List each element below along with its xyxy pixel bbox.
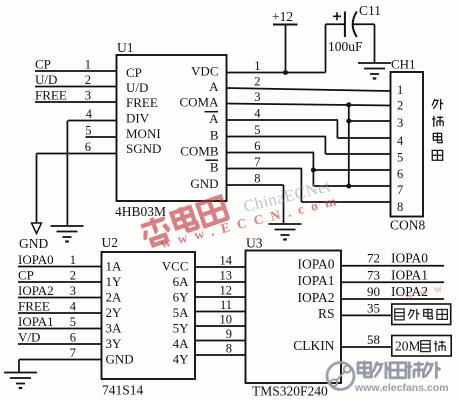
- svg-text:+12: +12: [272, 9, 293, 24]
- svg-text:FREE: FREE: [126, 95, 158, 110]
- svg-text:IOPA0: IOPA0: [391, 251, 428, 266]
- svg-text:U/D: U/D: [35, 72, 57, 87]
- reset circuit block (Chinese): [392, 304, 451, 325]
- svg-text:5: 5: [254, 123, 260, 137]
- wire U2 GND pin 7 to ground: [19, 346, 102, 373]
- svg-text:CLKIN: CLKIN: [293, 338, 334, 353]
- svg-text:4A: 4A: [173, 336, 190, 351]
- wire U1 GND pin8 to ground: [227, 172, 284, 225]
- svg-text:B: B: [210, 160, 219, 175]
- U1 pin name SGND: [126, 141, 161, 156]
- wire FREE input, U1 pin 3: [35, 88, 117, 103]
- U1 pin name DIV: [126, 111, 150, 126]
- U2 pin name 6Y: [173, 290, 190, 305]
- U2 pin name 4Y: [173, 352, 190, 367]
- svg-text:11: 11: [220, 298, 232, 312]
- CON8 pin 4: [397, 134, 404, 148]
- CON8 pin 5: [397, 151, 403, 165]
- svg-text:2: 2: [85, 73, 91, 87]
- svg-text:6Y: 6Y: [173, 290, 190, 305]
- junction COMA branch top: [346, 102, 351, 107]
- U1 pin name B-bar: [206, 160, 219, 175]
- svg-text:35: 35: [367, 300, 380, 315]
- svg-text:A: A: [209, 111, 219, 126]
- wire COMA: U1 pin3 to CON8 pin2: [227, 90, 391, 106]
- svg-text:3: 3: [397, 116, 403, 130]
- svg-text:7: 7: [397, 183, 403, 197]
- U1 pin name GND: [190, 176, 218, 191]
- svg-text:8: 8: [397, 200, 403, 214]
- svg-text:12: 12: [220, 284, 233, 298]
- svg-text:13: 13: [220, 269, 233, 283]
- svg-text:1: 1: [70, 253, 76, 267]
- U1 pin name A-bar: [205, 111, 220, 126]
- svg-text:5Y: 5Y: [173, 321, 190, 336]
- U2 pin name GND: [106, 352, 134, 367]
- wire IOPA2 output, U3 pin 90: [341, 284, 444, 299]
- wire RS, U3 pin 35, to reset circuit: [341, 300, 392, 315]
- svg-text:6: 6: [85, 140, 91, 154]
- wire IOPA1 output, U3 pin 73: [341, 267, 444, 282]
- U1 pin name VDC: [191, 64, 218, 79]
- IC U3 TMS320F240 body: [246, 236, 342, 399]
- svg-text:CON8: CON8: [390, 218, 426, 233]
- wire U2 pin 8 to U3: [195, 342, 246, 356]
- svg-text:5: 5: [85, 124, 91, 138]
- svg-text:CP: CP: [126, 65, 142, 80]
- svg-text:IOPA0: IOPA0: [18, 252, 54, 267]
- U1 pin name FREE: [126, 95, 158, 110]
- wire IOPA0 input, U2 pin 1: [18, 252, 102, 267]
- svg-text:6: 6: [397, 167, 403, 181]
- svg-text:CP: CP: [18, 268, 34, 283]
- svg-text:VDC: VDC: [191, 64, 218, 79]
- U1 pin name A: [209, 79, 219, 94]
- wire U2 pin 9 to U3: [195, 327, 246, 341]
- svg-text:5: 5: [397, 151, 403, 165]
- IC U1 4HB03M body: [115, 40, 227, 219]
- wire phase B: U1 pin5 to CON8 pin5: [227, 123, 391, 154]
- svg-text:741S14: 741S14: [102, 383, 144, 398]
- svg-text:GND: GND: [106, 352, 134, 367]
- ground at U1 DIV pin: [51, 226, 84, 242]
- svg-text:3Y: 3Y: [106, 336, 123, 351]
- junction COMA branch to CON8 pin3: [346, 119, 351, 124]
- svg-text:1Y: 1Y: [106, 274, 123, 289]
- svg-text:www.elecfans.com: www.elecfans.com: [354, 382, 449, 394]
- svg-text:SGND: SGND: [126, 141, 161, 156]
- svg-text:2A: 2A: [106, 290, 123, 305]
- svg-text:1: 1: [254, 59, 260, 73]
- svg-text:100uF: 100uF: [328, 39, 363, 54]
- wire V/D input, U2 pin 6: [18, 330, 102, 345]
- svg-text:2: 2: [397, 99, 403, 113]
- svg-text:FREE: FREE: [18, 299, 50, 314]
- wire DIV, U1 pin 4, to ground: [67, 107, 116, 227]
- svg-text:IOPA0: IOPA0: [297, 257, 334, 272]
- svg-text:U1: U1: [117, 40, 134, 55]
- svg-text:GND: GND: [19, 236, 48, 251]
- CON8 pin 1: [397, 83, 403, 97]
- U2 pin name 6A: [173, 274, 190, 289]
- CON8 pin 7: [397, 183, 403, 197]
- svg-text:20M: 20M: [395, 339, 421, 354]
- svg-text:U3: U3: [246, 236, 263, 251]
- svg-text:4Y: 4Y: [173, 352, 190, 367]
- svg-text:GND: GND: [190, 176, 218, 191]
- U1 pin name COMB: [180, 144, 219, 159]
- svg-text:VCC: VCC: [162, 259, 189, 274]
- U2 pin name 5A: [173, 305, 190, 320]
- svg-text:8: 8: [226, 342, 232, 356]
- ground at U1 GND pin: [269, 224, 302, 240]
- U3 pin name RS: [318, 306, 335, 321]
- svg-text:4: 4: [70, 300, 77, 314]
- junction +12/VDC node: [283, 70, 288, 75]
- U1 pin name MONI: [126, 126, 161, 141]
- svg-text:6: 6: [254, 139, 260, 153]
- svg-text:5A: 5A: [173, 305, 190, 320]
- svg-text:4: 4: [254, 107, 261, 121]
- +12 power terminal: [272, 9, 298, 73]
- svg-text:MONI: MONI: [126, 126, 161, 141]
- svg-text:IOPA2: IOPA2: [297, 290, 334, 305]
- svg-text:10: 10: [220, 313, 233, 327]
- svg-text:7: 7: [70, 346, 76, 360]
- U3 pin name CLKIN: [293, 338, 334, 353]
- wire IOPA0 output, U3 pin 72: [341, 251, 444, 266]
- U3 pin name IOPA0: [297, 257, 334, 272]
- wire FREE input, U2 pin 4: [18, 299, 102, 314]
- CON8 pin 3: [397, 116, 403, 130]
- wire A-bar: U1 pin4 to CON8 pin4: [227, 107, 391, 139]
- U2 pin name 2A: [106, 290, 123, 305]
- ground below capacitor C11: [358, 63, 391, 79]
- wire SGND, U1 pin 6, to GND arrow: [37, 140, 117, 223]
- CON8 pin 8: [397, 200, 403, 214]
- svg-text:4: 4: [397, 134, 404, 148]
- svg-text:CH1: CH1: [391, 57, 416, 72]
- svg-text:14: 14: [220, 254, 233, 268]
- wire COMB: U1 pin6 to CON8 pin6 and pin7: [227, 139, 391, 186]
- U2 pin name VCC: [162, 259, 189, 274]
- wire U2 pin 13 to U3: [195, 269, 246, 283]
- svg-text:4HB03M: 4HB03M: [115, 204, 166, 219]
- svg-text:V/D: V/D: [18, 330, 40, 345]
- svg-text:3A: 3A: [106, 321, 123, 336]
- svg-text:A: A: [209, 79, 219, 94]
- svg-text:6: 6: [70, 331, 76, 345]
- U2 pin name 1Y: [106, 274, 123, 289]
- svg-text:B: B: [210, 128, 219, 143]
- svg-text:U/D: U/D: [126, 80, 148, 95]
- svg-text:DIV: DIV: [126, 111, 150, 126]
- U3 pin name IOPA2: [297, 290, 334, 305]
- wire U2 pin 14 to U3: [195, 254, 246, 268]
- svg-text:RS: RS: [318, 306, 335, 321]
- svg-text:6A: 6A: [173, 274, 190, 289]
- U1 pin name U/D: [126, 80, 148, 95]
- svg-text:FREE: FREE: [35, 88, 67, 103]
- wire U2 pin 11 to U3: [195, 298, 246, 312]
- wire CP input, U1 pin 1: [35, 57, 117, 72]
- U2 pin name 1A: [106, 259, 123, 274]
- svg-text:U2: U2: [102, 235, 119, 250]
- svg-text:2Y: 2Y: [106, 305, 123, 320]
- svg-text:5: 5: [70, 315, 76, 329]
- svg-text:IOPA1: IOPA1: [297, 273, 334, 288]
- svg-text:1A: 1A: [106, 259, 123, 274]
- ground at U2 GND pin: [4, 373, 37, 389]
- svg-text:90: 90: [367, 284, 380, 299]
- svg-text:9: 9: [226, 327, 232, 341]
- wire phase A: U1 pin2 to CON8 pin1: [227, 75, 391, 92]
- wire CLKIN, U3 pin 58, to crystal: [341, 332, 392, 347]
- U2 pin name 5Y: [173, 321, 190, 336]
- wire U2 pin 10 to U3: [195, 313, 246, 327]
- svg-text:4: 4: [86, 107, 93, 121]
- svg-text:73: 73: [367, 267, 380, 282]
- U2 pin name 3Y: [106, 336, 123, 351]
- svg-text:COMB: COMB: [180, 144, 219, 159]
- svg-text:COMA: COMA: [179, 95, 219, 110]
- U1 pin name COMA: [179, 95, 219, 110]
- svg-text:C11: C11: [359, 3, 381, 18]
- capacitor C11 100uF: [326, 3, 382, 73]
- svg-text:IOPA2: IOPA2: [18, 283, 54, 298]
- wire VDC net: U1 pin1 to +12 node and C11: [227, 59, 326, 73]
- svg-text:2: 2: [254, 75, 260, 89]
- svg-text:1: 1: [397, 83, 403, 97]
- svg-text:IOPA1: IOPA1: [18, 314, 54, 329]
- connector CH1 CON8 body: [390, 57, 426, 233]
- svg-text:TMS320F240: TMS320F240: [252, 384, 328, 399]
- label external motor (Chinese, vertical): [432, 99, 443, 160]
- wire IOPA1 input, U2 pin 5: [18, 314, 102, 329]
- svg-text:IOPA1: IOPA1: [391, 267, 428, 282]
- IC U2 741S14 body: [102, 235, 196, 398]
- wire U2 pin 12 to U3: [195, 284, 246, 298]
- junction COMA/COMB tie: [346, 184, 351, 189]
- svg-text:3: 3: [254, 90, 260, 104]
- wire U/D input, U1 pin 2: [35, 72, 117, 87]
- wire CP input, U2 pin 2: [18, 268, 102, 283]
- wire COMA vertical branch: [349, 105, 391, 186]
- svg-text:8: 8: [254, 172, 260, 186]
- U3 pin name IOPA1: [297, 273, 334, 288]
- svg-text:7: 7: [254, 155, 260, 169]
- U1 pin name B: [210, 128, 219, 143]
- svg-text:58: 58: [367, 332, 380, 347]
- svg-text:3: 3: [70, 284, 76, 298]
- U2 pin name 2Y: [106, 305, 123, 320]
- svg-text:CP: CP: [35, 57, 51, 72]
- U1 pin name CP: [126, 65, 142, 80]
- wire B-bar: U1 pin7 to CON8 pin8: [227, 155, 391, 202]
- svg-text:72: 72: [367, 251, 380, 266]
- svg-text:2: 2: [70, 269, 76, 283]
- svg-text:3: 3: [85, 89, 91, 103]
- svg-text:1: 1: [85, 58, 91, 72]
- wire MONI stub, U1 pin 5: [85, 124, 116, 138]
- U2 pin name 4A: [173, 336, 190, 351]
- GND power arrow symbol: [19, 223, 48, 251]
- wire IOPA2 input, U2 pin 3: [18, 283, 102, 298]
- CON8 pin 6: [397, 167, 403, 181]
- 20M crystal block (Chinese): [392, 336, 451, 357]
- CON8 pin 2: [397, 99, 403, 113]
- junction COMB branch: [311, 168, 316, 173]
- U2 pin name 3A: [106, 321, 123, 336]
